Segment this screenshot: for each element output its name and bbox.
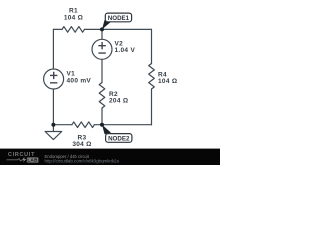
junction ground dot	[51, 123, 55, 127]
svg-text:NODE1: NODE1	[108, 15, 130, 22]
ground	[45, 125, 62, 140]
svg-text:V1: V1	[67, 71, 76, 78]
wire left rail bottom (V1 to ground junction)	[52, 89, 54, 125]
footer CircuitLab logo	[7, 152, 39, 162]
svg-text:R1: R1	[69, 7, 78, 14]
svg-text:304 Ω: 304 Ω	[72, 141, 91, 148]
svg-text:1.04 V: 1.04 V	[115, 47, 136, 54]
resistor R1	[62, 27, 85, 33]
wire V2 bottom to R2 top	[101, 59, 103, 82]
resistor R2	[99, 83, 105, 109]
svg-text:400 mV: 400 mV	[67, 78, 92, 85]
voltage source V2	[92, 39, 112, 59]
wire left rail top (top-left corner down to V1)	[52, 29, 54, 69]
wire R2 bottom to node2 junction	[101, 108, 103, 125]
svg-text:104 Ω: 104 Ω	[64, 15, 83, 22]
svg-text:http://circuitlab.com/c/x8k3gb: http://circuitlab.com/c/x8k3gbqmknk2a	[45, 158, 120, 163]
svg-text:NODE2: NODE2	[108, 135, 130, 142]
wire right rail (R4 leads)	[151, 29, 153, 124]
node NODE2 flag	[102, 125, 132, 143]
wire top rail (R1 leads, node1 to top-right corner)	[53, 28, 151, 30]
resistor R3	[72, 122, 95, 128]
junction node1 dot	[100, 27, 104, 31]
wire bottom rail (ground junction through R3 to bottom-right corner)	[53, 124, 151, 126]
resistor R4	[149, 64, 155, 90]
footer bar	[0, 149, 220, 165]
svg-text:104 Ω: 104 Ω	[158, 78, 177, 85]
svg-text:LAB: LAB	[27, 158, 38, 163]
node NODE1 flag	[102, 13, 132, 29]
svg-text:204 Ω: 204 Ω	[109, 97, 128, 104]
voltage source V1	[44, 69, 64, 89]
junction node2 dot	[100, 123, 104, 127]
wire V2 top lead	[101, 29, 103, 39]
